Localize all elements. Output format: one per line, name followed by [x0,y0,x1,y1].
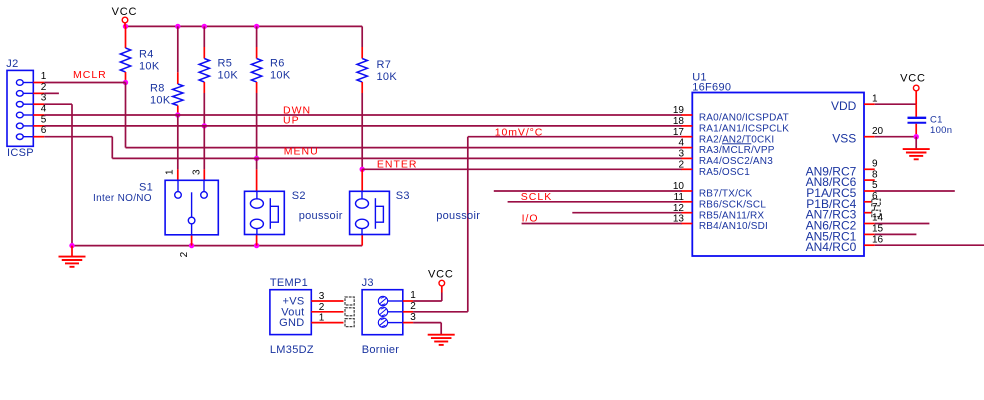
switch S3 [350,191,390,234]
S2 actuator [269,198,271,229]
wire R5 bottom lead [203,82,205,93]
wire stub RB7 [494,190,682,192]
pin U1.11 RB6/SCK/SCL [682,201,693,203]
svg-text:2: 2 [41,82,47,93]
svg-text:17: 17 [673,127,685,138]
S3 actuator [374,198,376,229]
pin U1.2 RA5/OSC1 [682,168,693,170]
wire VSS to junction [875,136,917,138]
svg-text:RA0/AN0/ICSPDAT: RA0/AN0/ICSPDAT [699,113,789,124]
wire S1 pin2 lead [191,235,193,246]
node rail junction R8 [175,24,180,29]
svg-text:6: 6 [41,125,47,136]
wire DWN from J2.4 [44,114,682,116]
wire R5 top lead [203,47,205,59]
pin U1.19 RA0/AN0/ICSPDAT [682,114,693,116]
wire rail corner down to R7 [361,26,363,47]
connector J2 [7,70,33,146]
wire ground rail bottom [72,245,362,247]
wire AN5/RC1 net [875,233,917,235]
svg-text:SCLK: SCLK [521,191,552,203]
resistor R5 [199,59,209,83]
wire MCLR vertical [125,83,127,148]
svg-text:10K: 10K [218,69,239,81]
connector J3 [362,290,403,335]
wire AN4/RC0 net [875,244,984,246]
wire R7 top lead [361,47,363,59]
wire SCLK [508,201,682,203]
svg-text:RB4/AN10/SDI: RB4/AN10/SDI [699,221,768,232]
pin U1.3 RA4/OSC2/AN3 [682,157,693,159]
svg-text:12: 12 [673,203,685,214]
svg-text:R7: R7 [377,59,392,71]
pin U1.12 RB5/AN11/RX [682,212,693,214]
svg-text:4: 4 [678,138,684,149]
svg-text:14: 14 [872,213,884,224]
svg-text:9: 9 [872,159,878,170]
svg-text:1: 1 [164,169,175,175]
wire 10mV from J3.2 [413,311,468,313]
svg-text:RB5/AN11/RX: RB5/AN11/RX [699,210,765,221]
wire to ground right [915,137,917,149]
ground J3 [428,334,455,336]
pin J2.3 [16,101,23,107]
wire DWN to S1 pin1 [177,115,179,169]
switch S1 [165,180,218,235]
svg-text:J2: J2 [6,58,18,70]
sensor TEMP1 [270,290,311,335]
svg-text:3: 3 [41,93,47,104]
pin U1.10 RB7/TX/CK [682,190,693,192]
wire VCC rail [126,25,363,27]
wire J3.3 to ground [413,322,441,324]
wire S1 pin1 lead [177,169,179,180]
svg-text:R5: R5 [218,57,233,69]
wire R7 bottom lead [361,82,363,93]
pin U1.6 P1B/RC4 [864,201,875,203]
svg-text:6: 6 [872,191,878,202]
svg-text:5: 5 [872,180,878,191]
svg-text:ICSP: ICSP [7,147,34,159]
node VSS junction [914,134,919,139]
svg-text:S1: S1 [139,181,153,193]
wire stub RB5 [572,212,682,214]
resistor R7 [357,59,367,83]
wire R4 bottom lead [125,72,127,83]
wire stub J2.2 [44,92,59,94]
resistor R6 [251,59,261,83]
svg-text:VCC: VCC [900,73,926,85]
pin U1.9 AN9/RC7 [864,168,875,170]
wire I/O [522,223,682,225]
svg-text:C1: C1 [930,114,943,125]
pin TEMP1.2 [311,311,343,313]
svg-text:16F690: 16F690 [692,81,731,93]
svg-text:R8: R8 [150,82,165,94]
pin J2.5 [16,123,23,129]
svg-text:RA3/MCLR/VPP: RA3/MCLR/VPP [699,145,775,156]
svg-text:GND: GND [279,317,304,329]
svg-text:RA2/AN2/T0CKI: RA2/AN2/T0CKI [699,134,774,145]
pin U1.5 P1A/RC5 [864,190,875,192]
svg-text:5: 5 [41,114,47,125]
wire S1 pin3 lead [203,169,205,180]
wire to ground left [71,246,73,257]
wire rail to R6 [256,26,258,47]
svg-text:LM35DZ: LM35DZ [270,344,314,356]
wire 10mV net vertical [467,137,469,312]
S1 lever [191,192,193,217]
svg-text:2: 2 [179,251,190,257]
svg-text:RA5/OSC1: RA5/OSC1 [699,167,750,178]
wire MCLR from J2.1 [44,82,125,84]
svg-text:poussoir: poussoir [299,210,343,222]
ground right [903,148,930,150]
pin U1.17 RA2/AN2/T0CKI [682,136,693,138]
svg-text:2: 2 [678,159,684,170]
svg-text:RB7/TX/CK: RB7/TX/CK [699,189,753,200]
wire R8 bottom lead [177,106,179,116]
wire AN6/RC2 net [875,223,930,225]
S1 inner pin lines [177,180,179,191]
svg-text:S3: S3 [396,190,410,202]
pin U1.16 AN4/RC0 [864,244,875,246]
pin J3.1 screw [378,296,387,305]
svg-text:8: 8 [872,169,878,180]
svg-text:Bornier: Bornier [362,344,400,356]
node UP junction [202,123,207,128]
svg-text:10K: 10K [139,61,160,73]
svg-text:4: 4 [41,103,47,114]
svg-text:2: 2 [410,301,416,312]
pin J2.4 [16,112,23,118]
pin U1.14 AN6/RC2 [864,223,875,225]
svg-text:1: 1 [319,313,325,324]
pin U1.15 AN5/RC1 [864,233,875,235]
svg-text:15: 15 [872,224,884,235]
svg-text:3: 3 [678,149,684,160]
node rail junction R4 [123,24,128,29]
svg-text:UP: UP [283,115,300,127]
node DWN junction [175,112,180,117]
svg-text:11: 11 [674,192,685,203]
wire C1 to VSS [915,124,917,137]
wire MENU [112,157,682,159]
svg-text:10: 10 [673,181,685,192]
svg-text:Inter NO/NO: Inter NO/NO [93,193,152,204]
node rail junction R6 [254,24,259,29]
wire S3 top lead [361,169,363,191]
svg-text:19: 19 [673,105,685,116]
wire R6 to MENU [256,93,258,158]
svg-text:7: 7 [872,202,878,213]
pin U1.8 AN8/RC6 [864,179,875,181]
svg-text:1: 1 [41,71,47,82]
pin J3.2 screw [378,307,387,316]
wire R5 to UP [203,93,205,126]
pin TEMP1.1 [311,322,343,324]
wire J3.1 to VCC [413,300,442,302]
svg-text:MCLR: MCLR [73,69,107,81]
svg-text:20: 20 [872,126,884,137]
pin U1.20 VSS [864,136,875,138]
svg-text:18: 18 [673,116,685,127]
pin U1.7 AN7/RC3 [864,212,875,214]
node ground rail left junction [69,243,74,248]
node MENU junction [254,156,259,161]
wire R6 top lead [256,47,258,59]
svg-text:VSS: VSS [832,132,856,146]
wire VCC right stem [915,91,917,104]
wire VCC1 stem [124,23,126,27]
svg-text:RA4/OSC2/AN3: RA4/OSC2/AN3 [699,156,773,167]
svg-text:R4: R4 [139,49,154,61]
wire S2 top lead [256,169,258,191]
svg-text:VDD: VDD [831,99,857,113]
svg-text:3: 3 [192,169,203,175]
svg-text:10K: 10K [270,69,291,81]
wire VCC to C1 [915,104,917,117]
capacitor C1 [908,117,927,119]
svg-text:RA1/AN1/ICSPCLK: RA1/AN1/ICSPCLK [699,124,789,135]
pin U1.18 RA1/AN1/ICSPCLK [682,125,693,127]
svg-text:10mV/°C: 10mV/°C [495,127,543,139]
wire S2 bottom lead [256,235,258,246]
svg-text:R6: R6 [270,57,285,69]
svg-text:3: 3 [319,291,325,302]
node MCLR junction [123,80,128,85]
wire 10mV to U1 pin17 [468,136,682,138]
svg-text:2: 2 [319,302,325,313]
wire R7 to ENTER [361,93,363,169]
svg-text:RB6/SCK/SCL: RB6/SCK/SCL [699,199,766,210]
svg-text:S2: S2 [292,190,306,202]
svg-text:10K: 10K [377,71,398,83]
node rail junction R5 [202,24,207,29]
node S1 pin2 junction [189,243,194,248]
wire MENU to S2 [256,158,258,169]
wire R4 top lead [125,26,127,48]
wire S3 bottom lead [361,235,363,246]
pin TEMP1.3 [311,300,343,302]
pin J2.2 [16,91,23,97]
svg-text:100n: 100n [930,125,952,136]
wire MCLR to U1 pin4 [126,147,683,149]
wire from J2.6 [44,136,112,138]
wire ENTER [362,168,682,170]
pin J2.1 [16,80,23,86]
resistor R4 [120,48,130,72]
svg-text:J3: J3 [362,277,374,289]
pin J3.3 screw [378,318,387,327]
svg-text:3: 3 [410,312,416,323]
wire R6 bottom lead [256,82,258,93]
pin U1.4 RA3/MCLR/VPP [682,147,693,149]
svg-text:VCC: VCC [428,269,454,281]
pin J2.6 [16,134,23,140]
svg-text:1: 1 [872,93,878,104]
svg-text:ENTER: ENTER [377,159,418,171]
wire rail to R5 [203,26,205,47]
svg-text:16: 16 [872,234,884,245]
wire P1A/RC5 net [875,190,955,192]
wire rail to R8 [177,26,179,72]
svg-text:poussoir: poussoir [436,210,480,222]
svg-text:TEMP1: TEMP1 [270,277,308,289]
svg-text:MENU: MENU [284,146,319,158]
resistor R8 [173,84,183,106]
wire R8 top lead [177,72,179,84]
node S2 bottom junction [254,243,259,248]
pin U1.1 VDD [864,103,875,105]
wire J2.3 to ground [44,103,72,105]
ground left [59,256,86,258]
switch S2 [245,191,285,234]
svg-text:AN4/RC0: AN4/RC0 [806,240,857,254]
svg-text:I/O: I/O [522,213,539,225]
wire VDD to VCC [875,103,917,105]
ic U1 16F690 [692,93,864,257]
svg-text:VCC: VCC [112,6,138,18]
svg-text:1: 1 [410,290,416,301]
wire UP from J2.5 [44,125,682,127]
svg-text:10K: 10K [150,94,171,106]
node ENTER junction [360,167,365,172]
svg-text:13: 13 [673,214,685,225]
wire UP to S1 pin3 [203,126,205,169]
pin U1.13 RB4/AN10/SDI [682,223,693,225]
